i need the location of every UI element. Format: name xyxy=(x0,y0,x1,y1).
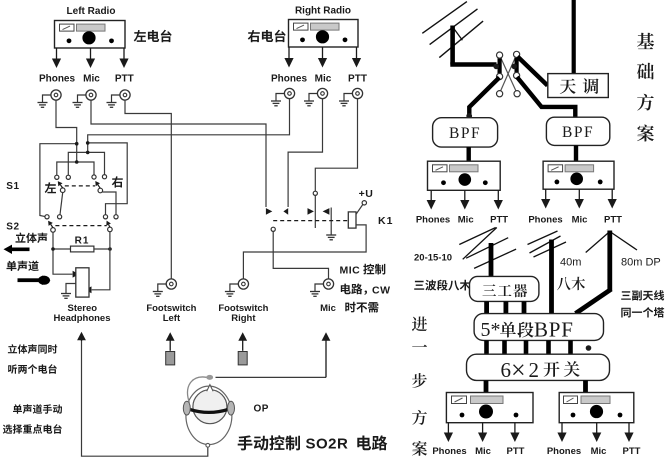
arrow left radio Phones out xyxy=(52,48,61,68)
radio basic right xyxy=(543,161,614,189)
label PTT L xyxy=(115,74,134,85)
resistor R1 wire xyxy=(51,247,112,251)
wire node A to S2 left xyxy=(40,144,77,217)
labels radio basic right xyxy=(528,215,622,226)
mono direction arrow xyxy=(18,276,51,286)
operator head OP xyxy=(183,375,234,447)
svg-text:R1: R1 xyxy=(75,236,90,247)
label Mic xyxy=(320,303,336,314)
wire left phones to S1 xyxy=(56,100,77,162)
svg-text:Mic: Mic xyxy=(572,215,588,226)
jack J2 left mic with ground xyxy=(73,90,97,107)
K1 PTT ground contact xyxy=(323,208,337,240)
label 立体声同时 xyxy=(8,344,57,354)
svg-text:PTT: PTT xyxy=(623,446,641,457)
K1 mic wiper terminal xyxy=(271,227,275,231)
arrow up to mic xyxy=(322,332,331,377)
svg-text:PTT: PTT xyxy=(490,215,508,226)
label 20-15-10 xyxy=(414,253,452,264)
label 单声道 xyxy=(7,261,39,271)
labels radio basic left xyxy=(416,215,508,226)
svg-text:+U: +U xyxy=(359,188,374,200)
label Footswitch Right xyxy=(218,303,268,324)
jack footswitch left with ground xyxy=(153,279,177,296)
svg-text:BPF: BPF xyxy=(534,318,574,342)
wire right mic to K1 contact xyxy=(283,99,322,215)
svg-text:Phones: Phones xyxy=(39,74,76,85)
svg-text:Mic: Mic xyxy=(475,446,491,457)
jack J3 left PTT with ground xyxy=(107,90,131,107)
svg-text:PTT: PTT xyxy=(115,74,134,85)
antenna yagi top xyxy=(422,2,483,65)
label 立体声 xyxy=(16,233,48,244)
svg-text:MIC: MIC xyxy=(340,265,361,277)
arrow up to headphones xyxy=(77,332,86,341)
svg-text:Mic: Mic xyxy=(458,215,474,226)
label 三副天线 xyxy=(621,290,664,300)
label OP xyxy=(254,404,269,415)
label 时不需 xyxy=(345,302,378,313)
antenna dipole 80m xyxy=(576,231,638,314)
label Phones R xyxy=(271,74,308,85)
wires switch to radios xyxy=(486,380,586,392)
arrow up pedal right xyxy=(238,332,247,351)
antenna yagi 40m xyxy=(528,231,567,314)
label 听两个电台 xyxy=(8,364,57,374)
stereo headphone plug xyxy=(76,268,89,297)
svg-text:Phones: Phones xyxy=(432,446,466,457)
arrows radio further right xyxy=(557,423,633,442)
wire S1 left pole down xyxy=(60,193,63,215)
left BPF xyxy=(433,118,498,147)
wire right BPF to radio xyxy=(574,145,578,161)
label Left Radio xyxy=(67,6,116,17)
label R1 xyxy=(75,236,90,247)
junction node A xyxy=(75,142,79,164)
label 80m DP xyxy=(621,257,661,269)
wire left mic to K1 contact xyxy=(91,100,272,215)
ground headphone plug xyxy=(61,284,76,299)
svg-text:40m: 40m xyxy=(560,257,581,269)
junction node B xyxy=(86,141,90,154)
terminal circle K1 PTT contact xyxy=(313,191,317,195)
jack J6 right PTT with ground xyxy=(339,88,363,105)
svg-text:Phones: Phones xyxy=(416,215,450,226)
svg-text:Right: Right xyxy=(231,313,256,324)
wire S2 right pole to headphone ring xyxy=(85,232,110,294)
wire antenna to tuner vertical xyxy=(572,0,576,73)
label PTT R xyxy=(348,74,367,85)
svg-text:6: 6 xyxy=(501,358,512,382)
svg-text:Phones: Phones xyxy=(547,446,581,457)
resistor R1 xyxy=(71,246,94,252)
wire switch to right BPF xyxy=(517,77,575,118)
wire left PTT to footswitch left xyxy=(125,100,171,279)
radio further left xyxy=(446,393,533,423)
label MIC 控制 xyxy=(340,264,386,277)
label S1 xyxy=(6,181,19,192)
wire op to headphones arrow xyxy=(82,340,208,456)
wire node B to S2 right xyxy=(88,143,128,215)
wire S2 left pole to headphone tip xyxy=(53,232,79,277)
label 左 xyxy=(45,182,56,193)
jack J1 left phones with ground xyxy=(38,90,62,107)
label K1 xyxy=(378,215,393,227)
arrow left radio Mic out xyxy=(86,48,95,68)
svg-text:Mic: Mic xyxy=(83,74,100,85)
label 右电台 xyxy=(248,30,286,43)
footswitch pedal right xyxy=(238,352,247,365)
antenna crossover switch xyxy=(493,51,520,96)
arrows radio basic right xyxy=(541,189,617,208)
label 同一个塔 xyxy=(621,307,664,317)
svg-text:Mic: Mic xyxy=(320,303,336,314)
svg-text:Phones: Phones xyxy=(271,74,308,85)
switch S1 xyxy=(55,175,107,193)
wire S1 feed contacts 1-3 xyxy=(57,162,94,175)
svg-text:K1: K1 xyxy=(378,215,393,227)
label 三波段八木 xyxy=(414,280,471,291)
wire right PTT to K1 contact xyxy=(315,99,357,192)
label 八木 xyxy=(557,277,585,291)
wire K1 wiper to mic jack xyxy=(273,231,328,279)
wire antenna to switch xyxy=(450,62,496,67)
svg-text:Left: Left xyxy=(163,313,181,324)
radio basic left xyxy=(428,161,501,190)
svg-text:CW: CW xyxy=(372,284,391,296)
svg-text:SO2R: SO2R xyxy=(306,436,349,453)
arrow up pedal left xyxy=(166,332,175,351)
switch matrix 6x2开关 xyxy=(467,354,610,384)
svg-text:S2: S2 xyxy=(6,222,19,233)
arrow right radio Mic out xyxy=(318,47,327,68)
svg-text:80m DP: 80m DP xyxy=(621,257,661,269)
label Mic R xyxy=(315,74,332,85)
label Right Radio xyxy=(295,6,351,17)
wire op mic boom out xyxy=(216,376,327,378)
wire S1 right pole down xyxy=(103,192,117,215)
labels radio further right xyxy=(547,446,641,457)
label 选择重点电台 xyxy=(3,424,62,434)
jack J5 right mic with ground xyxy=(304,88,328,105)
svg-text:PTT: PTT xyxy=(348,74,367,85)
stereo direction arrow xyxy=(4,245,30,254)
antenna tuner 天调 xyxy=(548,74,609,98)
wires triplexer to BPF xyxy=(487,301,524,314)
svg-text:Mic: Mic xyxy=(315,74,332,85)
relay K1 coil xyxy=(348,212,356,228)
radio further right xyxy=(559,393,634,423)
wire left BPF to radio xyxy=(467,147,471,161)
svg-text:Headphones: Headphones xyxy=(53,313,110,324)
jack mic with ground xyxy=(310,279,334,296)
svg-text:2: 2 xyxy=(529,358,540,382)
svg-text:Left Radio: Left Radio xyxy=(67,6,116,17)
wires BPF to switch xyxy=(487,340,592,354)
label 手动控制 SO2R 电路 xyxy=(238,435,388,452)
left radio L xyxy=(55,21,126,49)
svg-text:5*: 5* xyxy=(481,319,501,341)
right BPF xyxy=(546,117,609,145)
wire switch to left BPF xyxy=(466,78,499,119)
label Phones L xyxy=(39,74,76,85)
labels radio further left xyxy=(432,446,524,457)
svg-text:×: × xyxy=(511,356,526,385)
arrows radio basic left xyxy=(427,190,503,209)
label 右 xyxy=(112,176,123,187)
svg-text:20-15-10: 20-15-10 xyxy=(414,253,452,264)
wire S1 feed contacts 2-4 xyxy=(68,152,104,175)
label Footswitch Left xyxy=(146,303,196,324)
label 左电台 xyxy=(134,30,172,43)
svg-text:BPF: BPF xyxy=(449,125,481,142)
antenna yagi triband xyxy=(459,228,516,279)
footswitch pedal left xyxy=(166,352,175,365)
label 进一步方案 vertical xyxy=(412,317,427,456)
arrow right radio Phones out xyxy=(284,47,293,68)
svg-text:PTT: PTT xyxy=(604,215,622,226)
jack J4 right phones with ground xyxy=(271,88,295,105)
filter bank 5*单段BPF xyxy=(474,314,603,342)
wire K1 PTT common xyxy=(308,195,316,228)
right radio R xyxy=(289,20,359,48)
wire switch to antenna tuner xyxy=(518,57,548,86)
arrow left radio PTT out xyxy=(119,48,128,68)
svg-text:PTT: PTT xyxy=(507,446,525,457)
K1 mechanical link dashed xyxy=(273,220,348,222)
label S2 xyxy=(6,222,19,233)
svg-text:S1: S1 xyxy=(6,181,19,192)
svg-text:OP: OP xyxy=(254,404,269,415)
svg-text:Phones: Phones xyxy=(528,215,562,226)
svg-text:Mic: Mic xyxy=(591,446,607,457)
label Stereo Headphones xyxy=(53,303,110,324)
wire K1 coil to footswitch right xyxy=(243,225,366,279)
svg-text:BPF: BPF xyxy=(562,124,594,141)
label +U xyxy=(359,188,374,200)
triplexer 三工器 xyxy=(470,276,539,301)
arrow right radio PTT out xyxy=(352,47,361,68)
+U terminal xyxy=(356,201,366,215)
svg-text:Right Radio: Right Radio xyxy=(295,6,351,17)
label 单声道手动 xyxy=(13,404,62,414)
label Mic L xyxy=(83,74,100,85)
wire right phones to S1 xyxy=(88,99,290,153)
arrows radio further left xyxy=(444,423,520,442)
label 40m xyxy=(560,257,581,269)
label 电路 CW xyxy=(341,284,391,297)
jack footswitch right with ground xyxy=(225,279,249,296)
switch S2 xyxy=(45,215,118,233)
label 基础方案 vertical xyxy=(637,33,654,142)
